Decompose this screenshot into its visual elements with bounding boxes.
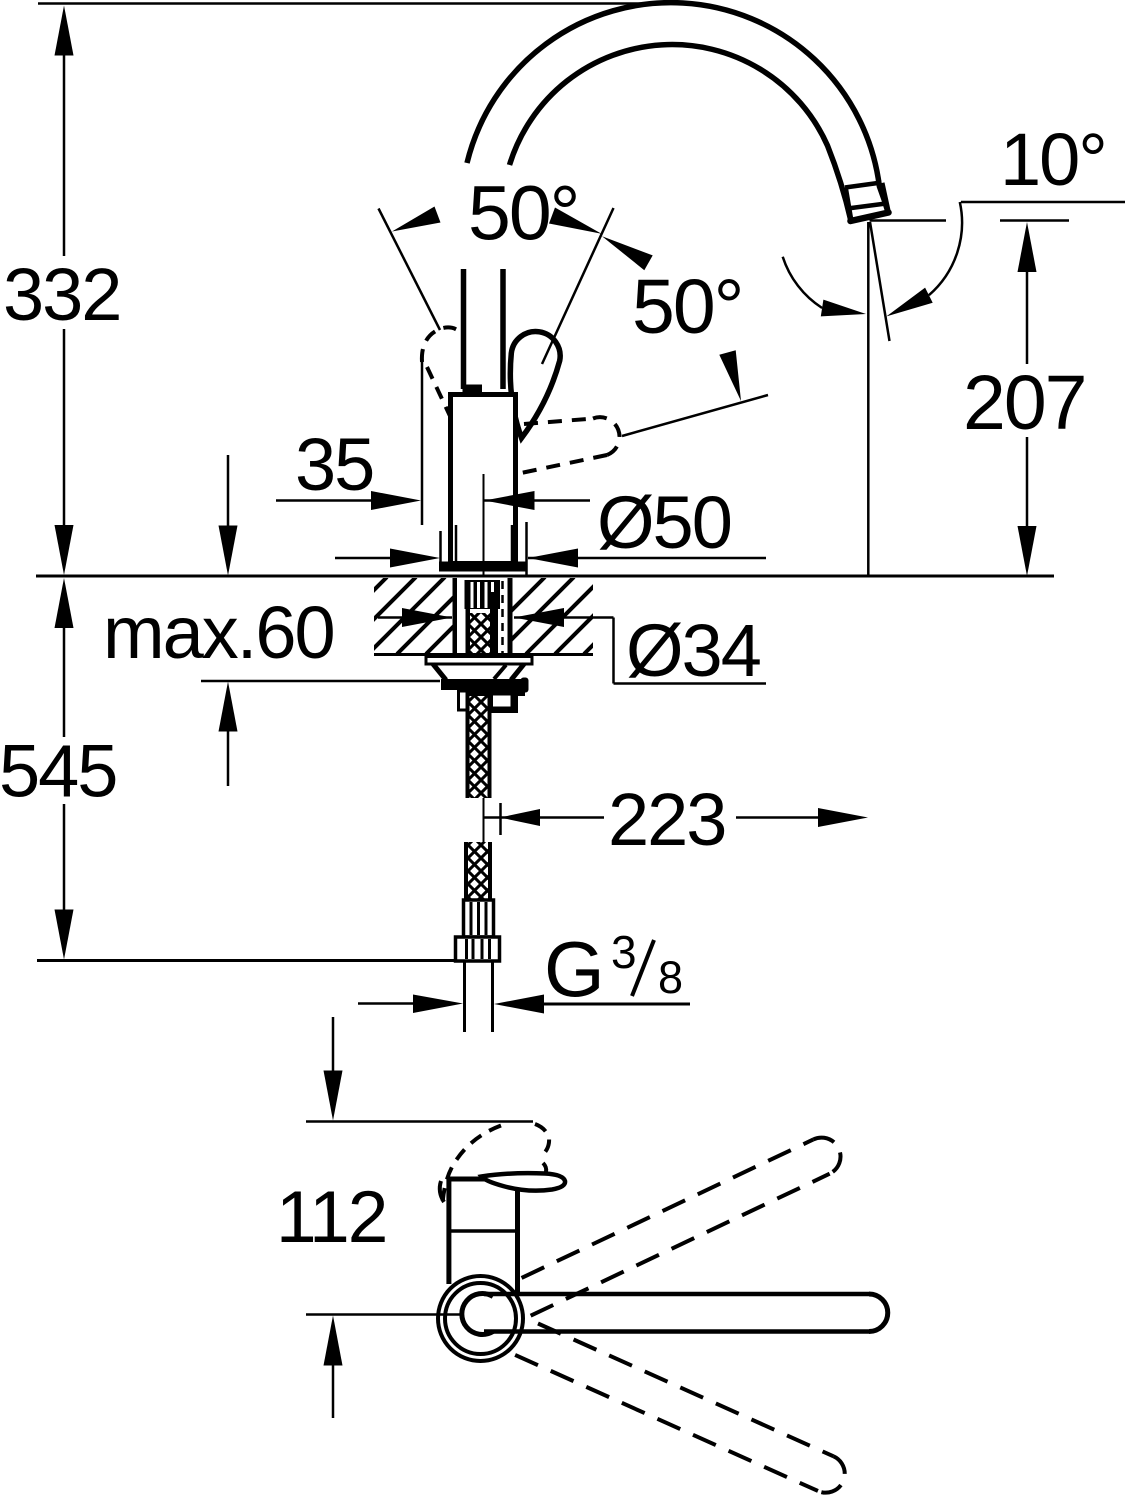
angle ray A (left) [379,209,441,331]
angular arrow on ray B upper (50 deg #1) [549,208,602,234]
545 arrow up [55,578,74,628]
threaded zone [465,580,501,609]
under-counter shank right wall [508,578,513,654]
max.60 lower extension line [201,680,440,683]
svg-text:max.60: max.60 [103,591,334,674]
spout inner arc [510,45,851,221]
base flange [439,562,528,572]
connection tube [463,961,466,1032]
angular arrow on ray C [719,350,741,401]
svg-text:G: G [544,925,605,1013]
angle ray C (right, horizontal) [622,395,768,436]
dashed handle tilted left [422,327,460,362]
207 top reference line [1000,219,1069,222]
svg-text:207: 207 [963,360,1085,446]
35 extension line [421,350,424,525]
svg-text:3: 3 [611,926,637,978]
countertop bottom line [374,653,593,656]
centerline upper [483,474,485,576]
shank wall hidden lines inside body [455,525,458,563]
spout tip horizontal line [870,219,947,222]
10 deg tilted line [870,222,890,341]
top view solid left curve [440,1181,444,1202]
top view body outline [449,1179,518,1292]
handle lever vertical position left line [461,269,467,389]
mounting nut black bar [441,679,526,690]
spout outer arc [467,3,888,213]
svg-text:223: 223 [608,778,725,861]
10 deg arrow right [886,288,932,317]
10 deg arc right [929,202,962,295]
svg-text:8: 8 [658,952,683,1003]
angular arrow on ray A [392,207,441,232]
upper braided hose [469,613,492,654]
top view dashed raised handle right curve [535,1124,549,1156]
svg-text:50°: 50° [632,264,742,350]
spout tube left cap [462,1294,493,1335]
solid tilted handle (50 deg position) [510,332,560,438]
top view dashed raised handle left curve [443,1126,502,1204]
dimension diameter 50 [335,557,390,560]
handle lever vertical position right line [500,269,506,389]
top view spout tube [484,1292,869,1297]
dimension 35 [276,499,371,502]
top view body divider [450,1229,516,1233]
swivel pivot outer circle [438,1276,523,1361]
dashed swivel position lower [515,1320,851,1499]
dimension 332 vertical line [63,54,66,256]
centerline between hoses [483,798,485,843]
angular arrow on ray B lower (50 deg #2) [602,236,653,270]
max.60 arrow up [219,682,238,732]
545 bottom reference line [37,959,456,962]
countertop top line [36,575,1054,578]
545 arrow down [55,910,74,960]
dimension diameter 34 [378,616,452,619]
top view lever paddle [482,1173,566,1191]
crimp ferrule [464,900,494,937]
dimension 207 [1026,270,1029,364]
top reference line (332 upper datum) [38,2,645,5]
svg-text:545: 545 [0,730,116,813]
10 deg arc left [783,257,822,308]
max.60 arrow down [219,526,238,576]
top view dashed raised handle right lower dash [543,1163,546,1172]
223 tip tick [499,803,502,835]
angle ray B (middle) [542,208,614,364]
svg-text:10°: 10° [1000,118,1106,201]
stabilizer plate [426,657,532,665]
112 bottom reference line [306,1313,461,1316]
under-counter shank left wall [453,578,458,654]
plate right leg [511,664,524,680]
dimension G3/8 [358,1002,414,1005]
dimension max.60 vertical line [227,455,230,527]
332 arrow down [55,525,74,575]
middle braided hose [468,696,489,798]
10 deg arrow left [821,300,866,317]
dashed handle horizontal right [524,419,593,425]
svg-text:Ø50: Ø50 [597,481,731,564]
dashed swivel position upper [514,1131,846,1315]
nut step [461,690,525,696]
side outlet stub [492,694,517,712]
svg-text:332: 332 [3,253,120,336]
332 arrow up [55,6,74,56]
lower braided hose [467,842,491,906]
left stub [459,691,468,710]
svg-text:35: 35 [295,423,373,506]
svg-text:112: 112 [276,1177,386,1258]
faucet body (side view) [451,395,516,564]
10 deg reference line [961,201,1125,204]
112 top reference line [306,1120,533,1123]
dimension 223 [484,816,604,819]
swivel pivot middle circle [445,1283,516,1354]
spout outlet vertical line [867,222,870,576]
spout end cap [851,213,889,222]
dimension 545 vertical line [63,628,66,737]
leg hatch mark [494,665,506,679]
dashed hidden line in shank [501,581,504,653]
spout tip side walls [845,188,851,221]
G3/8 nut [456,937,500,961]
svg-text:50°: 50° [468,171,578,257]
svg-text:Ø34: Ø34 [626,609,760,692]
aerator band lines [845,183,882,188]
plate left leg [433,664,446,680]
handle hub tab [463,385,483,394]
dimension 112 [332,1017,335,1071]
black column right of hose [490,592,498,654]
